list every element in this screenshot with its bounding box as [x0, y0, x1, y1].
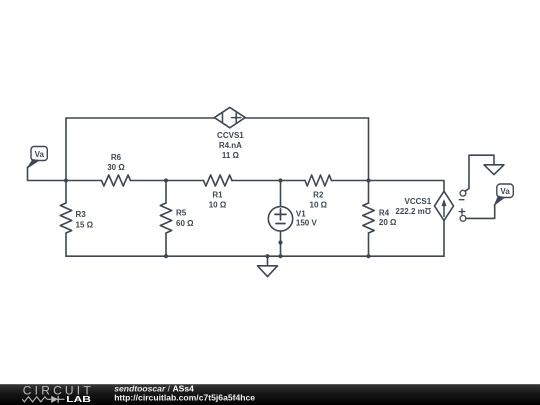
wire: node B to R1 — [166, 180, 204, 182]
VCCS source VCCS1 (diamond with up arrow) — [435, 191, 454, 220]
svg-text:R1: R1 — [212, 191, 223, 200]
CCVS source CCVS1 (diamond, - left / + right) — [214, 107, 245, 127]
wire: node C down to V1 top — [280, 181, 282, 207]
terminal circle bottom (+ output) — [460, 216, 466, 222]
resistor R1 — [204, 175, 233, 186]
resistor R6 — [102, 175, 131, 186]
wire: R5 bottom to bottom rail — [165, 233, 167, 256]
label minus sign at top terminal — [459, 199, 464, 201]
svg-text:15 Ω: 15 Ω — [76, 221, 94, 230]
ground symbol (bottom center) — [258, 256, 278, 276]
wire: right vertical from top rail down to node D — [368, 118, 370, 181]
svg-text:11 Ω: 11 Ω — [222, 151, 240, 160]
svg-text:CCVS1: CCVS1 — [217, 131, 244, 140]
wire: right Va flag to bottom terminal — [466, 205, 495, 219]
wire: Va flag lead to node A — [28, 167, 67, 180]
node C junction dot — [278, 178, 282, 182]
footer line 2: circuit url — [114, 392, 255, 402]
wire: top rail left segment — [66, 117, 215, 119]
wire: top terminal up and over to ground — [465, 155, 494, 191]
svg-text:Va: Va — [500, 187, 510, 196]
label R6 30ohm — [107, 153, 125, 172]
label R2 10ohm — [310, 191, 328, 210]
net flag Va (right) — [495, 184, 514, 205]
wire: node A to R6 — [66, 180, 102, 182]
node: R5 bottom junction dot — [164, 254, 168, 258]
resistor R5 — [160, 203, 171, 233]
svg-text:60 Ω: 60 Ω — [176, 219, 194, 228]
resistor R2 — [305, 175, 332, 186]
logo resistor zigzag and diode glyph — [22, 396, 64, 403]
svg-text:R3: R3 — [76, 210, 87, 219]
node B junction dot — [164, 178, 168, 182]
svg-text:R5: R5 — [176, 209, 187, 218]
node A junction dot — [64, 178, 68, 182]
node: V1 bottom rail junction dot — [278, 254, 282, 258]
label R5 60ohm — [176, 209, 194, 229]
svg-text:10 Ω: 10 Ω — [209, 201, 227, 210]
svg-text:30 Ω: 30 Ω — [107, 163, 125, 172]
svg-text:VCCS1: VCCS1 — [405, 197, 432, 206]
wire: R3 bottom to bottom rail corner — [65, 233, 67, 256]
resistor R3 — [60, 203, 71, 233]
svg-text:R2: R2 — [313, 191, 324, 200]
label R3 15ohm — [76, 210, 94, 230]
svg-text:222.2 mƱ: 222.2 mƱ — [395, 207, 431, 216]
wire: left vertical, node A up to top rail — [65, 118, 67, 181]
wire: V1 bottom to bottom rail — [280, 231, 282, 256]
svg-text:R4.nA: R4.nA — [219, 141, 242, 150]
wire: R4 bottom to bottom rail — [368, 233, 370, 256]
wire: node D to VCCS1 top — [369, 181, 445, 192]
footer line 1: sendtooscar / ASs4 — [114, 384, 194, 394]
svg-text:20 Ω: 20 Ω — [379, 218, 397, 227]
svg-text:150 V: 150 V — [296, 218, 318, 227]
label R4 20ohm — [379, 209, 397, 228]
wire: bottom rail — [66, 255, 444, 257]
label CCVS1 designator and values — [217, 131, 244, 160]
svg-text:http://circuitlab.com/c7t5j6a5: http://circuitlab.com/c7t5j6a5f4hce — [114, 392, 255, 402]
node D junction dot — [366, 178, 370, 182]
label R1 10ohm — [209, 191, 227, 210]
footer black bar — [0, 384, 540, 405]
wire: R2 to node D — [332, 180, 369, 182]
wire: node C to R2 — [281, 180, 306, 182]
label plus sign at bottom terminal — [459, 209, 464, 214]
wire: R6 to node B — [131, 180, 167, 182]
resistor R4 — [363, 203, 374, 233]
node: V1 wire mid junction dot — [278, 240, 282, 244]
wire: node B down to R5 — [165, 181, 167, 204]
terminal circle top (- output) — [460, 190, 466, 196]
node: R4 bottom junction dot — [366, 254, 370, 258]
wire: R1 to node C — [232, 180, 281, 182]
svg-text:R6: R6 — [111, 153, 122, 162]
logo LAB word — [66, 396, 91, 405]
logo CIRCUIT word — [23, 384, 94, 398]
svg-text:V1: V1 — [296, 209, 306, 218]
node: ground junction dot on bottom rail — [265, 254, 269, 258]
wire: VCCS1 bottom to bottom rail corner — [443, 221, 445, 257]
svg-text:10 Ω: 10 Ω — [310, 201, 328, 210]
label VCCS1 value — [395, 197, 431, 216]
svg-text:Va: Va — [35, 150, 45, 159]
label V1 150V — [296, 209, 318, 227]
wire: node D down to R4 — [368, 181, 370, 204]
svg-text:LAB: LAB — [66, 396, 91, 405]
voltage source V1 (circle, + top / - bottom) — [268, 207, 292, 231]
ground symbol (top right) — [484, 165, 504, 175]
wire: top rail right segment — [245, 117, 368, 119]
net flag Va (left) — [28, 147, 48, 168]
svg-text:R4: R4 — [379, 209, 390, 218]
wire: node A down to R3 — [65, 181, 67, 204]
